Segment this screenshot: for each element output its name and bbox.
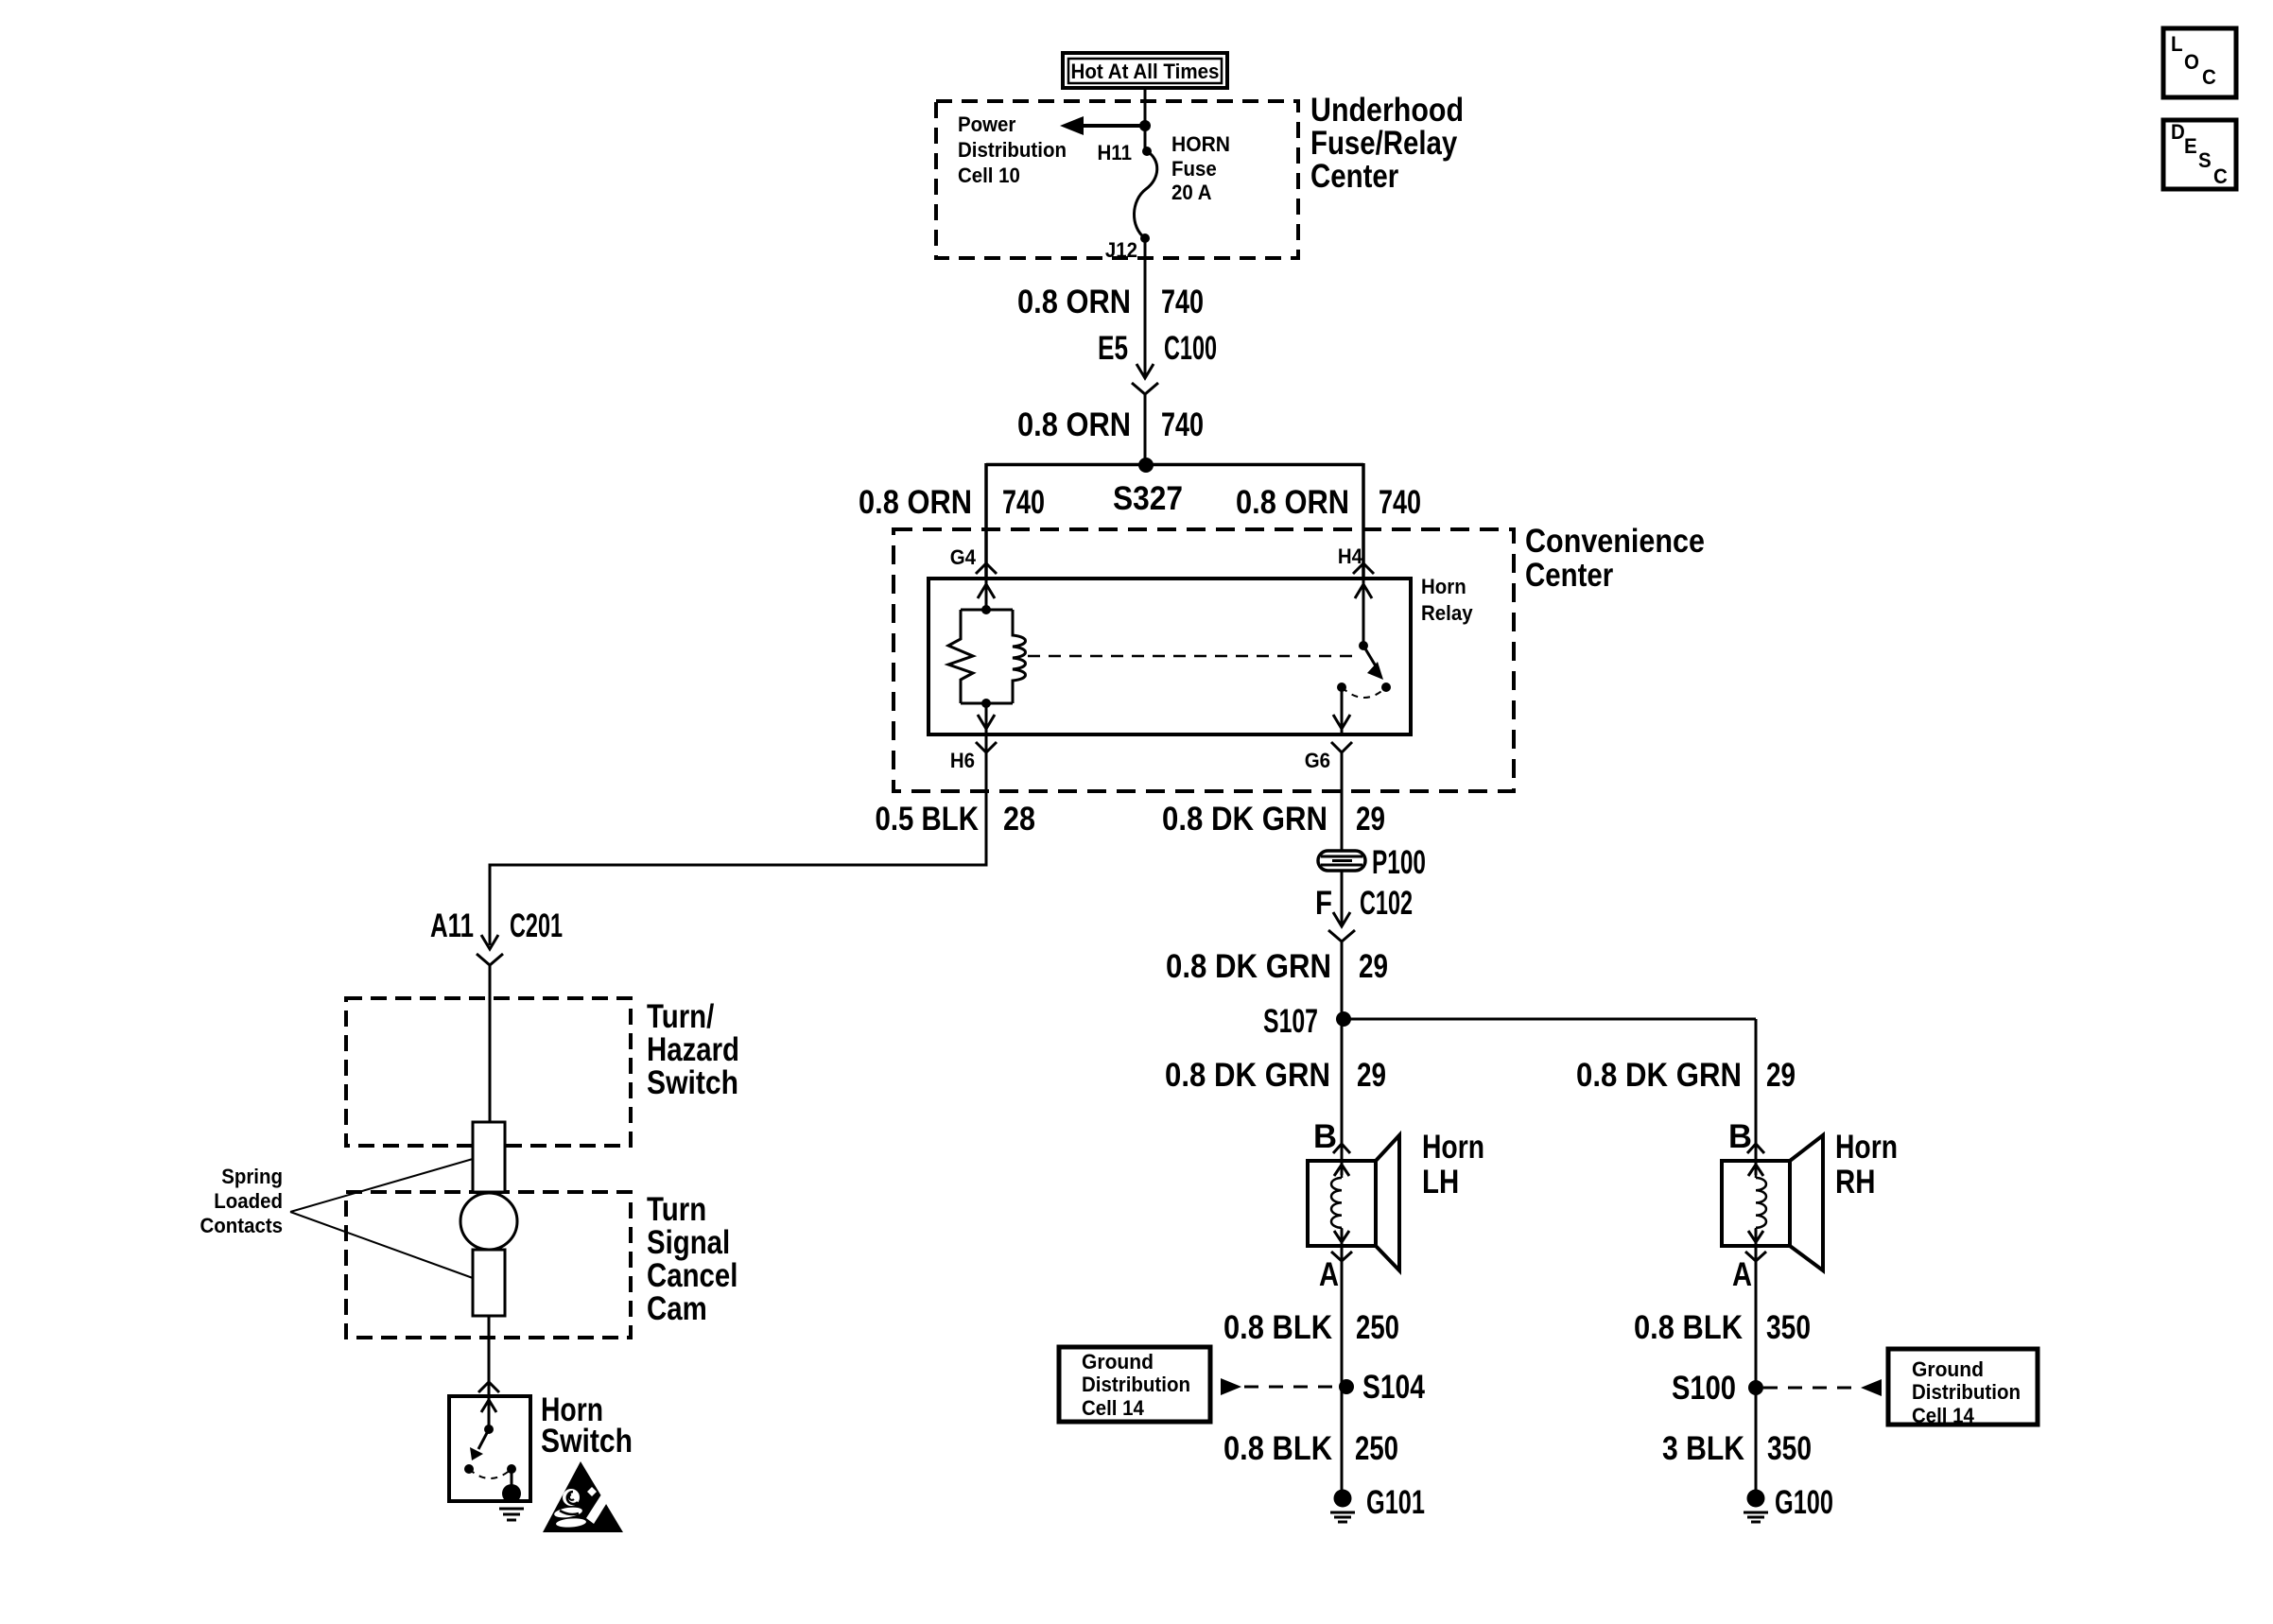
legend: LOC box	[2163, 28, 2236, 97]
svg-text:0.8 BLK: 0.8 BLK	[1634, 1309, 1743, 1346]
label: 0.8 ORN 740 (left)	[859, 484, 1045, 521]
wire 0.8 ORN 740: fuse to C100	[1144, 238, 1147, 378]
relay switch arm	[1363, 646, 1383, 680]
wire 0.8 ORN 740: S327 to relay pin G4	[984, 463, 988, 579]
svg-text:H4: H4	[1338, 544, 1363, 568]
label: 0.8 BLK 250	[1223, 1309, 1399, 1346]
splice S104	[1339, 1369, 1425, 1406]
ground distribution cell 14 box (left)	[1059, 1347, 1210, 1422]
pin H4	[1338, 544, 1374, 574]
svg-text:Cam: Cam	[647, 1290, 707, 1327]
svg-text:C: C	[2202, 65, 2216, 89]
svg-text:S107: S107	[1263, 1003, 1318, 1040]
label: 0.8 ORN 740	[1017, 406, 1204, 443]
svg-text:A: A	[1732, 1256, 1752, 1293]
label: Horn Switch	[541, 1391, 633, 1460]
wire 0.8 BLK 250: horn LH to S104	[1341, 1246, 1344, 1494]
svg-text:E5: E5	[1098, 330, 1128, 367]
label: 0.8 DK GRN 29 (right)	[1576, 1057, 1796, 1094]
label: 0.8 DK GRN 29	[1166, 948, 1388, 985]
svg-text:A: A	[1319, 1256, 1339, 1293]
svg-text:Contacts: Contacts	[200, 1214, 284, 1237]
svg-text:S104: S104	[1362, 1369, 1425, 1406]
pin H6	[950, 742, 997, 772]
svg-text:Power: Power	[958, 112, 1016, 136]
label: Power Distribution Cell 10	[958, 112, 1067, 187]
svg-text:Cell 14: Cell 14	[1912, 1404, 1975, 1427]
wire 0.8 DK GRN 29: S107 to horn LH	[1341, 1019, 1344, 1161]
svg-text:Center: Center	[1525, 557, 1614, 594]
svg-text:Spring: Spring	[221, 1165, 283, 1188]
wire 0.8 ORN 740: S327 to relay pin H4	[1362, 463, 1365, 579]
convenience center dashed box	[894, 529, 1514, 791]
wire: cancel cam to horn switch	[488, 1316, 491, 1396]
horn LH pin B	[1313, 1118, 1350, 1155]
svg-text:RH: RH	[1835, 1164, 1876, 1201]
svg-text:740: 740	[1161, 284, 1204, 320]
svg-text:A11: A11	[430, 907, 474, 944]
wire 0.8 ORN 740: C100 to S327	[1144, 394, 1147, 466]
turn signal cancel cam circle	[460, 1193, 517, 1250]
pin G4	[950, 545, 997, 574]
svg-text:Fuse/Relay: Fuse/Relay	[1310, 125, 1458, 162]
svg-text:20 A: 20 A	[1171, 181, 1212, 204]
svg-text:H11: H11	[1098, 141, 1133, 164]
svg-text:D: D	[2171, 120, 2185, 144]
grommet P100	[1318, 844, 1426, 881]
svg-text:H6: H6	[950, 749, 975, 772]
svg-text:Hazard: Hazard	[647, 1031, 739, 1068]
svg-text:Relay: Relay	[1421, 601, 1473, 625]
label: 0.5 BLK 28	[876, 801, 1036, 838]
svg-text:B: B	[1313, 1118, 1337, 1155]
turn signal cancel cam dashed box	[346, 1192, 631, 1338]
connector C102 pin F	[1315, 871, 1413, 942]
horn LH pin A	[1319, 1252, 1352, 1293]
svg-text:Cancel: Cancel	[647, 1257, 737, 1294]
svg-text:Cell 10: Cell 10	[958, 164, 1020, 187]
svg-text:0.8 ORN: 0.8 ORN	[1017, 406, 1131, 443]
label: Convenience Center	[1525, 523, 1705, 594]
label: 0.8 BLK 250 (lower)	[1223, 1430, 1398, 1467]
svg-text:G101: G101	[1366, 1484, 1425, 1521]
horn RH	[1722, 1135, 1823, 1270]
svg-text:Turn: Turn	[647, 1191, 706, 1228]
label: 3 BLK 350	[1662, 1430, 1812, 1467]
svg-text:S: S	[2198, 148, 2212, 172]
pointer lines: spring loaded contacts	[290, 1159, 473, 1278]
label: 0.8 DK GRN 29	[1162, 801, 1385, 838]
label: 0.8 ORN 740 (right)	[1236, 484, 1421, 521]
svg-text:0.8 DK GRN: 0.8 DK GRN	[1162, 801, 1327, 838]
label: Horn RH	[1835, 1129, 1898, 1201]
label: Horn Relay	[1421, 575, 1473, 625]
svg-text:Ground: Ground	[1082, 1350, 1154, 1373]
svg-text:G6: G6	[1305, 749, 1330, 772]
spring loaded contact (lower)	[473, 1250, 505, 1316]
svg-text:740: 740	[1002, 484, 1045, 521]
pin G6	[1305, 742, 1352, 772]
spring loaded contact (upper)	[473, 1122, 505, 1192]
svg-text:Center: Center	[1310, 158, 1399, 195]
label: Turn Signal Cancel Cam	[647, 1191, 737, 1327]
svg-text:0.8 BLK: 0.8 BLK	[1223, 1309, 1332, 1346]
svg-text:0.8 BLK: 0.8 BLK	[1223, 1430, 1332, 1467]
svg-text:C102: C102	[1360, 885, 1413, 922]
ground G100	[1744, 1484, 1833, 1522]
svg-text:740: 740	[1379, 484, 1421, 521]
ground distribution cell 14 box (right)	[1888, 1349, 2038, 1427]
svg-text:G4: G4	[950, 545, 977, 569]
svg-text:350: 350	[1767, 1430, 1812, 1467]
SIR caution symbol (airbag triangle)	[543, 1461, 623, 1532]
horn RH pin B	[1728, 1118, 1764, 1155]
svg-text:HORN: HORN	[1171, 132, 1230, 156]
svg-text:G100: G100	[1775, 1484, 1833, 1521]
turn/hazard switch dashed box	[346, 998, 631, 1146]
svg-text:J12: J12	[1105, 238, 1137, 262]
svg-text:Distribution: Distribution	[958, 138, 1067, 162]
svg-text:Loaded: Loaded	[214, 1189, 283, 1213]
relay coil	[1013, 610, 1026, 703]
arrow + dashed link to S104	[1221, 1378, 1342, 1395]
svg-text:B: B	[1728, 1118, 1752, 1155]
svg-text:250: 250	[1356, 1309, 1399, 1346]
node: feed junction to Power Distribution	[1139, 120, 1151, 131]
wire 0.8 DK GRN 29: G6 to P100	[1341, 752, 1344, 852]
svg-text:Horn: Horn	[1835, 1129, 1898, 1166]
svg-text:C100: C100	[1164, 330, 1217, 367]
relay actuation dashed link	[1028, 655, 1359, 658]
legend: DESC box	[2163, 120, 2236, 189]
relay switch common wire from H4	[1355, 579, 1372, 650]
label: Hot At All Times	[1063, 53, 1227, 88]
label: Underhood Fuse/Relay Center	[1310, 92, 1464, 195]
svg-text:3 BLK: 3 BLK	[1662, 1430, 1744, 1467]
pin H11	[1098, 141, 1133, 164]
svg-text:Switch: Switch	[647, 1064, 738, 1101]
svg-text:29: 29	[1359, 948, 1388, 985]
label: Spring Loaded Contacts	[200, 1165, 284, 1237]
svg-text:Horn: Horn	[1422, 1129, 1484, 1166]
wire: battery feed from Hot At All Times into fuse center	[1144, 88, 1147, 154]
relay coil input wire from G4	[978, 579, 995, 614]
svg-text:L: L	[2171, 32, 2183, 56]
relay coil output wire to H6	[961, 699, 1013, 734]
svg-text:0.8 ORN: 0.8 ORN	[859, 484, 972, 521]
svg-text:0.8 ORN: 0.8 ORN	[1017, 284, 1131, 320]
svg-text:Switch: Switch	[541, 1423, 633, 1460]
svg-text:Horn: Horn	[1421, 575, 1466, 598]
horn RH pin A	[1732, 1252, 1766, 1293]
svg-text:O: O	[2184, 50, 2199, 74]
relay switch contacts	[1337, 682, 1391, 698]
svg-text:LH: LH	[1422, 1164, 1459, 1201]
horn switch contacts	[464, 1464, 516, 1478]
svg-text:740: 740	[1161, 406, 1204, 443]
wire 0.8 DK GRN 29: C102 to S107	[1341, 942, 1344, 1019]
wire 0.8 BLK 350: horn RH to S100	[1755, 1246, 1758, 1494]
svg-text:Distribution: Distribution	[1912, 1380, 2021, 1404]
svg-text:250: 250	[1355, 1430, 1398, 1467]
svg-text:S327: S327	[1113, 480, 1183, 517]
horn switch pin chevron	[478, 1382, 499, 1392]
connector C100 pin E5	[1098, 330, 1217, 394]
relay switch output wire to G6	[1333, 687, 1350, 734]
svg-text:29: 29	[1357, 1057, 1386, 1094]
svg-text:Ground: Ground	[1912, 1357, 1984, 1381]
arrow: to Power Distribution Cell 10	[1060, 116, 1147, 135]
underhood fuse/relay center dashed box	[936, 101, 1298, 258]
svg-text:Cell 14: Cell 14	[1082, 1396, 1145, 1420]
label: Turn/Hazard Switch	[647, 998, 739, 1101]
wire: C201 to turn signal cancel cam	[489, 965, 492, 1122]
dashed link + arrow from S100	[1763, 1379, 1882, 1396]
splice S327	[986, 458, 1363, 517]
label: 0.8 DK GRN 29 (left)	[1165, 1057, 1386, 1094]
svg-text:350: 350	[1766, 1309, 1811, 1346]
label: 0.8 BLK 350	[1634, 1309, 1811, 1346]
ground G101	[1330, 1484, 1425, 1522]
svg-text:Signal: Signal	[647, 1224, 730, 1261]
svg-text:0.5 BLK: 0.5 BLK	[876, 801, 980, 838]
svg-text:Convenience: Convenience	[1525, 523, 1705, 560]
horn switch box	[449, 1396, 530, 1501]
wire 0.5 BLK 28: H6 to C201	[490, 734, 986, 945]
svg-text:Fuse: Fuse	[1171, 157, 1217, 181]
splice S107	[1263, 1003, 1756, 1040]
wire 0.8 DK GRN 29: S107 to horn RH	[1755, 1019, 1758, 1161]
horn switch ground	[499, 1469, 524, 1520]
horn switch internal: input wire and arm	[470, 1396, 496, 1460]
svg-text:C: C	[2213, 164, 2228, 188]
svg-text:28: 28	[1003, 801, 1035, 838]
svg-text:Underhood: Underhood	[1310, 92, 1464, 129]
svg-text:P100: P100	[1372, 844, 1426, 881]
svg-text:0.8 ORN: 0.8 ORN	[1236, 484, 1349, 521]
svg-text:F: F	[1315, 885, 1332, 922]
svg-text:Distribution: Distribution	[1082, 1373, 1190, 1396]
svg-text:0.8 DK GRN: 0.8 DK GRN	[1165, 1057, 1330, 1094]
fuse F1: HORN Fuse 20 A	[1134, 147, 1156, 243]
pin J12	[1105, 238, 1137, 262]
svg-text:E: E	[2184, 134, 2197, 158]
connector C201 pin A11	[430, 907, 563, 965]
horn LH	[1308, 1135, 1399, 1270]
relay resistor (parallel)	[948, 610, 1013, 703]
label: Horn LH	[1422, 1129, 1484, 1201]
svg-text:S100: S100	[1672, 1370, 1736, 1407]
svg-text:29: 29	[1356, 801, 1385, 838]
label: 0.8 ORN 740	[1017, 284, 1204, 320]
svg-text:29: 29	[1766, 1057, 1796, 1094]
svg-text:Turn/: Turn/	[647, 998, 715, 1035]
svg-text:0.8 DK GRN: 0.8 DK GRN	[1166, 948, 1331, 985]
svg-text:0.8 DK GRN: 0.8 DK GRN	[1576, 1057, 1742, 1094]
splice S100	[1672, 1370, 1763, 1407]
svg-text:C201: C201	[510, 907, 563, 944]
label: HORN Fuse 20 A	[1171, 132, 1230, 204]
relay U1: Horn Relay box	[928, 579, 1411, 734]
svg-text:Hot At All Times: Hot At All Times	[1071, 60, 1220, 83]
